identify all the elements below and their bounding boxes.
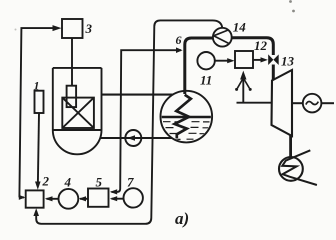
svg-text:13: 13 [281, 54, 295, 69]
svg-text:2: 2 [42, 174, 50, 189]
svg-text:а): а) [175, 209, 189, 228]
svg-text:1: 1 [34, 79, 40, 93]
svg-text:3: 3 [85, 21, 93, 36]
svg-text:14: 14 [233, 20, 247, 35]
svg-text:12: 12 [254, 38, 268, 53]
svg-text:11: 11 [200, 72, 212, 87]
svg-text:7: 7 [127, 174, 134, 189]
svg-text:4: 4 [64, 174, 72, 189]
svg-text:6: 6 [176, 33, 182, 47]
svg-text:5: 5 [96, 174, 103, 189]
